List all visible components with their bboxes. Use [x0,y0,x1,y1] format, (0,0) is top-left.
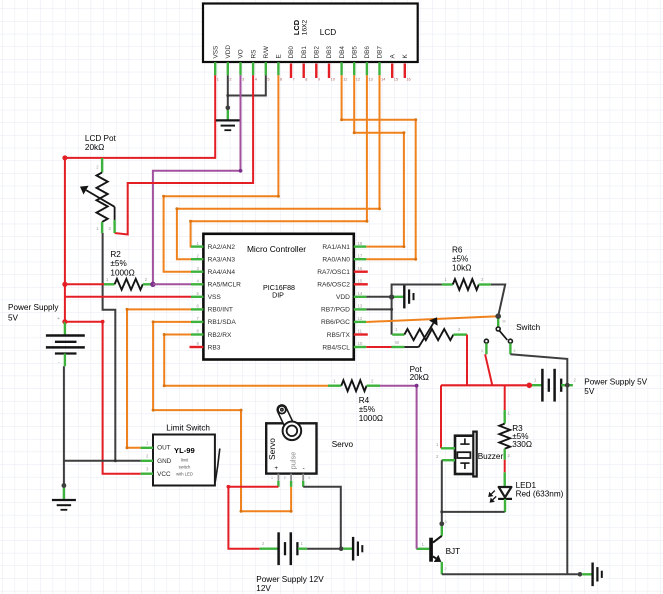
wire battery5V- to ground (dark) [63,366,65,485]
svg-text:DB2: DB2 [314,46,321,59]
limit switch part name [174,446,195,455]
transistor Q1 base leg [416,548,429,550]
limit switch pin numbers [146,441,149,472]
svg-text:+: + [57,316,60,322]
svg-text:20kΩ: 20kΩ [85,143,104,152]
svg-text:3: 3 [445,520,447,524]
wire PIC RB0/INT to LimitSwitch OUT (orange) [127,309,191,447]
potentiometer Pot left leg [392,333,404,335]
wire 5V rail horizontal (red) [441,384,529,386]
node bendpoint R/W join [226,94,229,97]
svg-text:M: M [503,320,506,324]
node junction dot left ground (dark) [62,483,67,488]
svg-text:LCD: LCD [320,28,336,37]
svg-text:RB7/PGD: RB7/PGD [321,307,350,314]
resistor R4 right leg [367,385,380,387]
wire LCD RS pin4 to LCD-Pot wiper (red) [115,75,254,234]
LCD unconnected pin stubs DB0-DB3, A, K (red) [291,64,405,79]
LED1 label [516,481,564,498]
svg-text:13: 13 [369,76,373,81]
resistor R3 bottom leg [504,449,506,460]
ground symbol bottom right [593,563,602,587]
svg-text:±5%: ±5% [452,255,468,264]
svg-text:1: 1 [271,476,273,480]
potentiometer Pot wiper arrow [404,317,437,347]
svg-text:16: 16 [406,76,410,81]
wire BJT emitter to ground rail (dark) [442,573,580,575]
transistor Q1 body bar [429,538,433,562]
LCD part label [320,28,336,37]
svg-text:Power Supply 5V: Power Supply 5V [584,377,647,386]
svg-text:DB6: DB6 [364,46,371,59]
power supply 12V label [256,575,324,593]
node junction dot 12V ground (dark) [339,546,344,551]
battery 5V right positive leg [532,384,542,386]
svg-text:RB0/INT: RB0/INT [208,307,233,314]
node junction dot 5V rail / battery + (red) [527,383,533,389]
microcontroller left pin labels [208,244,242,351]
svg-text:DB7: DB7 [377,46,384,59]
svg-text:12V: 12V [256,584,271,593]
wire VDD net vertical to R6-left and Pot-left (dark) [392,285,442,335]
svg-text:switch: switch [179,464,191,469]
battery 12V pin numbers [262,541,304,546]
potentiometer LCD-Pot body (zigzag) [97,172,108,222]
wire R6 right to switch common node (dark) [491,285,505,317]
svg-text:8: 8 [305,76,307,81]
wire 5V rail down to buzzer pin1 (red) [440,385,442,448]
svg-text:6: 6 [280,76,282,81]
wire R3 to LED1 anode (red) [504,460,506,473]
resistor R2 right leg [143,283,153,285]
svg-text:20kΩ: 20kΩ [410,373,429,382]
svg-text:LCD: LCD [292,19,301,35]
svg-text:13: 13 [358,304,363,309]
LED1 triangle [499,487,512,497]
svg-text:OUT: OUT [157,444,171,451]
battery 5V right pin numbers [534,378,577,383]
svg-text:Servo: Servo [332,440,354,449]
svg-text:Power Supply 12V: Power Supply 12V [256,575,324,584]
svg-text:1: 1 [217,76,219,81]
LED1 cathode bar [498,498,512,500]
ground symbol bottom left [52,500,76,510]
servo tiny pin marks [271,476,310,480]
servo horn arm [282,410,292,431]
buzzer piezo symbol [457,438,470,469]
servo internal label Servo (rotated) [267,438,277,460]
ground symbol right of battery 12V [353,537,362,561]
transistor Q1 BJT label [446,547,461,556]
resistor R3 top leg [504,410,506,424]
wire LCD VO pin3 to LCD-Pot net (purple) [153,75,241,284]
svg-text:R4: R4 [359,396,370,405]
transistor Q1 collector leg [441,524,443,536]
potentiometer Pot label [410,365,429,382]
svg-text:DB5: DB5 [351,46,358,59]
svg-text:DIP: DIP [272,292,284,300]
resistor R4 pin numbers [333,378,374,383]
svg-text:Micro Controller: Micro Controller [247,244,306,254]
battery 5V left negative leg [64,354,66,367]
node bendpoint servo+ wire (red) [227,485,231,489]
ground symbol right of VDD [404,285,413,309]
svg-text:R/W: R/W [263,45,270,58]
wire PIC RB6/PGC to switch common node (orange diagonal) [366,316,498,322]
node junction dot battery5V + (red) [62,319,67,324]
transistor Q1 pin numbers [422,520,447,571]
svg-text:+: + [274,465,278,472]
svg-text:-: - [303,465,305,472]
svg-text:RA5/MCLR: RA5/MCLR [208,282,242,289]
ground symbol below LCD [216,120,240,130]
potentiometer LCD-Pot pin1 bottom leg [101,222,103,233]
ground symbol bottom right (leg) [582,573,592,575]
switch tiny pin marks [481,320,516,354]
svg-text:1: 1 [481,349,483,353]
node junction dot battery5V- / switch net (dark) [565,383,570,388]
svg-text:RA7/OSC1: RA7/OSC1 [317,269,350,276]
switch S1 label [516,323,541,332]
microcontroller U1 PIC16F88 body [203,234,353,360]
node bendpoint GND tee [114,459,117,462]
servo part label [332,440,354,449]
wire 5V- rail to R2 (red) [65,283,104,285]
svg-text:10kΩ: 10kΩ [452,264,471,273]
svg-text:5V: 5V [584,387,595,396]
node junction dot rail top-left [62,155,67,160]
svg-text:3: 3 [242,76,244,81]
limit switch small text [176,458,193,477]
svg-text:RA2/AN2: RA2/AN2 [208,244,236,251]
potentiometer Pot body (zigzag) [404,329,453,340]
svg-text:K: K [402,54,409,59]
switch throw right leg [509,343,511,354]
resistor R2 body (zigzag) [115,279,143,290]
LCD display U-LCD (16x2) body [203,4,418,63]
ground symbol right of VDD (leg) [393,296,404,298]
svg-text:2: 2 [229,76,231,81]
battery 12V negative leg [298,548,307,550]
svg-text:18: 18 [358,241,363,246]
limit switch LS1 label [166,424,210,433]
wire switch left throw to 5V rail (red) [485,354,492,385]
buzzer pin numbers [436,442,439,459]
LED1 anode leg [504,472,506,487]
LED1 emission arrows [488,491,496,503]
svg-text:RA4/AN4: RA4/AN4 [208,269,236,276]
svg-text:10: 10 [358,341,363,346]
microcontroller left pin legs [190,247,204,347]
LCD Pot label [85,134,117,152]
resistor R4 label [359,396,383,423]
switch common leg [497,316,499,327]
LCD internal label LCD 16X2 (rotated) [292,19,308,35]
node junction dot rail-R2 (red) [62,282,67,287]
wire LCD DB7 to PIC RA3/AN3 (orange) [177,75,380,259]
resistor R4 left leg [328,385,341,387]
resistor R6 left leg [442,283,453,285]
svg-text:E: E [276,54,283,58]
LCD pin numbers 1-16 [217,76,411,81]
LCD connected pin legs (green) [215,62,379,75]
wire switch right throw to battery5V- net (dark) [510,354,567,385]
svg-text:VSS: VSS [208,294,222,301]
svg-text:BJT: BJT [446,547,461,556]
svg-text:DB0: DB0 [288,46,295,59]
resistor R2 label [110,250,134,277]
svg-text:RA6/OSC2: RA6/OSC2 [317,282,350,289]
wire LCD DB6 to PIC RA2/AN2 (orange) [191,75,367,246]
transistor Q1 emitter line [433,555,442,562]
resistor R6 right leg [479,283,491,285]
svg-text:Power Supply: Power Supply [8,303,59,312]
LED1 cathode leg [504,499,506,512]
buzzer label [478,452,504,461]
wire R4 to BJT base (purple) [380,386,417,549]
svg-text:with LED: with LED [176,472,193,477]
node bendpoint LED wire join [440,510,443,513]
svg-text:330Ω: 330Ω [512,440,532,449]
potentiometer LCD-Pot wiper leg [113,220,115,233]
wire LCD DB4 to PIC RA0/AN0 (orange) [342,75,416,259]
svg-text:1000Ω: 1000Ω [359,414,383,423]
battery 5V right body [542,369,561,402]
wire LCD VDD pin2 down to ground node (dark) [227,75,229,108]
ground symbol 12V (leg) [343,548,353,550]
svg-text:RA1/AN1: RA1/AN1 [322,244,350,251]
wire LimitSwitch GND to battery5V- net (dark) [64,460,141,462]
buzzer pin1 leg [441,447,455,449]
battery 5V left terminal marks [57,316,60,366]
wire 5V rail to R3 (red) [504,385,506,410]
microcontroller pin numbers [197,241,363,346]
limit switch pin labels [157,444,172,478]
limit switch body [153,435,215,486]
svg-text:RA0/AN0: RA0/AN0 [322,257,350,264]
limit switch pin legs [141,448,153,474]
wire LCD DB5 to PIC RA1/AN1 (orange) [354,75,404,246]
microcontroller title [247,244,306,254]
potentiometer Pot right leg [453,333,467,335]
node junction dot above LCD ground [226,106,231,111]
wire 5V- rail to PIC VSS (red) [65,296,191,298]
switch throw terminal left [484,339,488,343]
node bendpoint VCC wire (red) [101,320,105,324]
wire PIC RB1/SDA to servo pulse (orange) [153,322,291,511]
svg-text:RB4/SCL: RB4/SCL [322,344,350,351]
servo plus/minus marks [274,465,304,472]
svg-text:Servo: Servo [267,438,277,460]
power supply 5V (left) label [8,303,59,323]
node junction dot bottom-right ground (dark) [578,572,583,577]
wire servo - to battery12V - net (dark) [303,487,341,549]
svg-text:limit: limit [181,458,189,463]
wire LED1 cathode to BJT collector net (dark) [442,511,505,513]
node junction dot VDD net (dark) [389,294,394,299]
potentiometer LCD-Pot pin2 top leg [101,158,103,172]
battery 5V left body [46,336,85,354]
svg-text:1000Ω: 1000Ω [110,268,134,277]
svg-text:LCD Pot: LCD Pot [85,134,117,143]
resistor R2 left leg [104,283,115,285]
wire buzzer pin2 to BJT collector net (dark) [441,460,443,524]
svg-text:RB3: RB3 [208,344,221,351]
svg-text:11: 11 [343,76,347,81]
wire LCD R/W pin5 to VDD-ground wire (dark) [228,75,266,95]
wire LCD E pin6 to PIC RA4/AN4 (orange) [164,75,279,271]
svg-text:17: 17 [358,253,363,258]
potentiometer LCD-Pot wiper arrow [80,186,115,220]
switch lever [499,331,507,340]
wire servo + to battery12V + (red) [228,487,278,549]
switch throw terminal right [508,339,512,343]
svg-text:VCC: VCC [157,471,171,478]
svg-text:VDD: VDD [336,294,350,301]
servo horn hub [287,426,298,437]
svg-text:7: 7 [293,76,295,81]
wire LCD-Pot pin1 to LimitSwitch GND (dark) [103,233,116,461]
orange wire bendpoints (PIC left side) [126,308,293,513]
wire PIC RB4/SCL to Pot wiper (red) [366,346,391,348]
node junction dot switch common net (dark) [495,313,501,319]
node junction dot R2/VO/RA5 (purple) [150,282,155,287]
servo horn tip circle [278,406,286,414]
battery 5V left positive leg [64,322,66,336]
servo horn wheel [283,422,302,441]
svg-text:DB3: DB3 [326,46,333,59]
LCD-Pot pin number 1 [96,226,99,231]
svg-text:Red (633nm): Red (633nm) [516,489,564,498]
buzzer pin2 leg [442,459,455,461]
svg-text:9: 9 [318,76,320,81]
servo M1 body [266,423,316,473]
svg-text:2: 2 [284,476,286,480]
buzzer BZ1 body [455,432,477,477]
svg-text:VDD: VDD [225,45,232,59]
wire PIC RB2/RX to R4 (orange) [164,335,328,386]
svg-text:±5%: ±5% [359,405,375,414]
svg-text:2: 2 [514,349,516,353]
svg-text:RB2/RX: RB2/RX [208,332,232,339]
resistor R6 label [452,246,471,273]
orange wire bendpoints (LCD data bus) [162,118,417,261]
svg-text:RA3/AN3: RA3/AN3 [208,257,236,264]
node bendpoint RB7 join [390,308,393,311]
wire purple node to PIC RA5/MCLR [153,283,191,285]
svg-text:12: 12 [358,316,363,321]
LCD-Pot pin number W [108,226,111,231]
svg-text:5: 5 [267,76,269,81]
LCD-Pot pin number 2 [96,165,99,170]
ground symbol bottom left (leg) [63,486,65,501]
svg-text:A: A [389,54,396,59]
svg-text:RB5/TX: RB5/TX [327,332,351,339]
svg-text:RB6/PGC: RB6/PGC [321,319,350,326]
svg-text:RS: RS [250,50,257,59]
servo pin legs (green) [278,481,303,487]
svg-text:R2: R2 [110,250,121,259]
svg-text:Switch: Switch [516,323,541,332]
wire Pot right to 5V rail (red) [466,335,468,386]
resistor R3 body (zigzag) [499,424,510,449]
node junction dot collector net (dark) [439,521,444,526]
svg-text:Buzzer: Buzzer [478,452,504,461]
svg-text:14: 14 [358,291,363,296]
transistor Q1 emitter leg [441,562,443,574]
resistor R4 body (zigzag) [341,380,366,391]
svg-text:16X2: 16X2 [302,19,309,35]
battery 5V right negative leg [561,384,573,386]
battery 12V body [279,532,298,565]
svg-text:12: 12 [356,76,360,81]
svg-text:15: 15 [394,76,398,81]
svg-text:YL-99: YL-99 [174,446,195,455]
resistor R6 pin numbers [445,277,485,282]
microcontroller right pin labels [317,244,350,351]
ground symbol below LCD (leg) [227,108,229,121]
node bendpoint VO corner (purple) [239,169,243,173]
svg-text:15: 15 [358,279,363,284]
wire PIC VDD to ground node (dark) [366,296,391,298]
svg-text:Limit Switch: Limit Switch [166,424,210,433]
svg-text:16: 16 [358,266,363,271]
battery 12V positive leg [260,548,279,550]
resistor R6 body (zigzag) [453,279,479,290]
microcontroller part name [263,284,295,300]
switch common terminal [496,327,500,331]
potentiometer Pot pin numbers [395,327,461,345]
wire PIC RB7/PGD to VDD net (dark) [366,308,391,310]
svg-text:DB1: DB1 [301,46,308,59]
svg-text:R6: R6 [452,246,463,255]
svg-text:5V: 5V [8,314,19,323]
svg-text:VSS: VSS [212,46,219,59]
wire battery5V+ to LimitSwitch VCC (red) [65,322,141,474]
potentiometer Pot wiper leg [392,346,405,348]
svg-text:RB1/SDA: RB1/SDA [208,319,237,326]
svg-text:GND: GND [157,458,172,465]
LCD pin name labels VSS..K (rotated) [212,45,409,59]
microcontroller right pin legs [354,247,368,347]
wire left VSS rail vertical (red) [64,158,66,322]
svg-text:3: 3 [308,476,310,480]
svg-text:2: 2 [445,567,447,571]
svg-text:11: 11 [358,329,363,334]
svg-text:±5%: ±5% [110,259,126,268]
servo horn tip hole [281,409,283,411]
resistor R3 pin numbers [508,411,511,459]
resistor R2 pin numbers [106,277,148,282]
limit switch lever [215,449,220,483]
wire battery5V- down right side (dark) [566,385,568,574]
wire LCD VSS pin1 to 5V- rail (red) [65,75,215,158]
power supply 5V (right) label [584,377,647,396]
switch throw left leg [485,343,487,354]
resistor R3 label [512,424,532,449]
servo pin stubs (gray) [278,474,303,481]
transistor Q1 collector line [433,536,442,543]
svg-text:VO: VO [238,49,245,58]
svg-text:DB4: DB4 [339,46,346,59]
wire battery12V- to ground (dark) [307,548,341,550]
servo internal label pulse (rotated) [288,452,297,470]
node bendpoint R4-base wire (purple) [415,384,419,388]
svg-text:pulse: pulse [288,452,297,470]
